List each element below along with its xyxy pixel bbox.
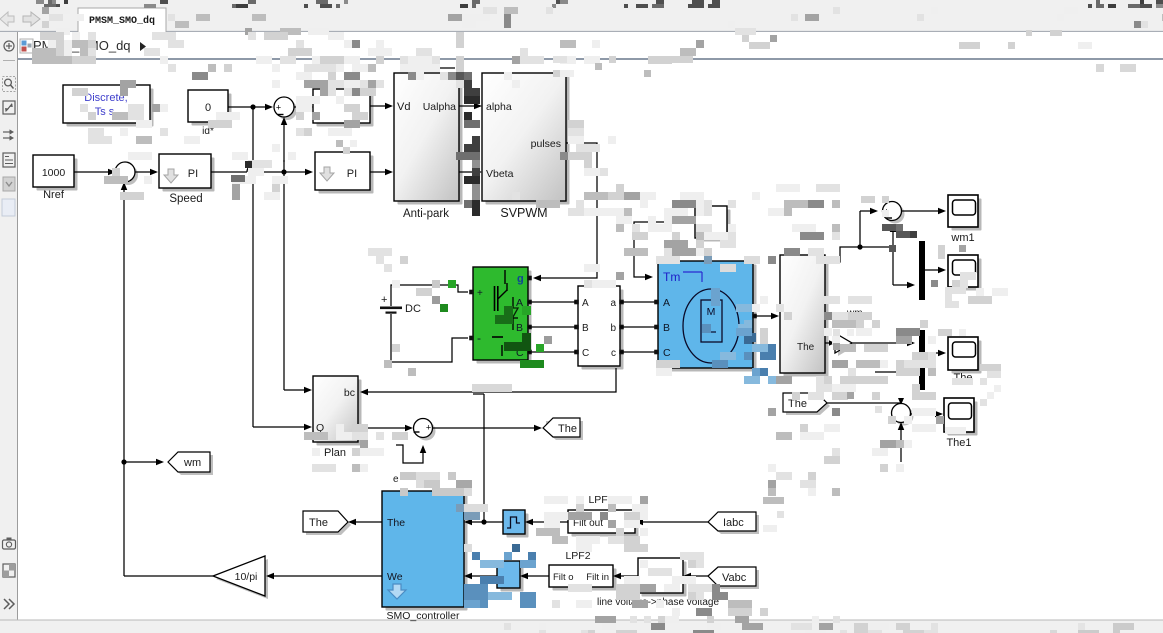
svg-text:b: b — [610, 323, 616, 334]
svg-text:PI: PI — [347, 168, 357, 180]
wire PI q to Anti-park input 2 — [370, 171, 391, 173]
wire gain to mux 2 — [852, 342, 913, 344]
From tag The (right) — [786, 396, 830, 415]
wire theta sum to Goto tag The — [433, 427, 540, 429]
scope 3 — [952, 341, 982, 374]
wire step to motor Tm — [634, 222, 695, 277]
svg-text:a: a — [610, 298, 616, 309]
svg-text:0: 0 — [205, 102, 211, 114]
wire motor m output to measurement demux — [753, 315, 777, 317]
wire VI bc tap to Plan block — [362, 368, 616, 392]
wire LPF2 to small filter — [522, 575, 549, 577]
toolbar icon zoom — [3, 77, 16, 92]
PI current controller q-axis block — [319, 156, 374, 194]
wire gain output feedback — [124, 575, 213, 577]
wire angle sum bottom input — [900, 424, 902, 462]
svg-text:The: The — [558, 423, 577, 435]
wire Nref to speed sum — [74, 171, 114, 173]
wire LPF1 to rate transition — [527, 521, 568, 523]
wire sum bottom input elbow — [396, 445, 423, 463]
From tag Iabc — [711, 515, 759, 534]
PI current controller d-axis block — [317, 93, 374, 127]
wire Iabc tag to LPF1 — [637, 521, 708, 523]
svg-text:Tm: Tm — [663, 270, 680, 284]
svg-text:Plan: Plan — [324, 447, 346, 459]
gain block 10/pi — [216, 559, 268, 599]
universal bridge inverter block (green) — [477, 271, 532, 364]
svg-text:Filt o: Filt o — [553, 572, 574, 583]
svg-text:C: C — [663, 347, 671, 359]
wire Vabc tag to voltage transform — [685, 575, 708, 577]
mux block 2 — [919, 330, 925, 390]
wire sum to scope wm1 — [901, 210, 944, 212]
status bar — [0, 620, 1163, 633]
toolbar icon camera — [3, 540, 16, 549]
svg-text:We: We — [387, 571, 403, 583]
scope The1 — [948, 402, 978, 436]
scope wm1 — [952, 199, 982, 231]
model icon in breadcrumb — [20, 39, 33, 53]
svg-text:B: B — [663, 322, 670, 334]
toolbar icon fit view — [3, 101, 15, 114]
toolbar icon highlighted box — [2, 199, 15, 216]
svg-text:The1: The1 — [946, 437, 971, 449]
wire SMO The output to Goto tag — [350, 521, 382, 523]
Plan flux position block — [317, 380, 362, 446]
svg-text:SVPWM: SVPWM — [500, 206, 547, 220]
svg-text:c: c — [611, 348, 616, 359]
wire constant 0 to sum — [228, 106, 271, 108]
wire voltage transform to LPF2 — [615, 575, 638, 577]
three-phase VI measurement block — [582, 290, 624, 370]
Speed PI controller block — [163, 158, 215, 192]
constant block id* value 0 — [192, 94, 232, 126]
tab bar — [0, 7, 1163, 32]
svg-text:A: A — [516, 297, 523, 309]
wire stub above Anti-park — [433, 67, 455, 69]
wire sum to current PI d — [294, 106, 311, 108]
svg-text:Vabc: Vabc — [722, 572, 747, 584]
wire mux 2 lower input — [875, 371, 913, 373]
svg-text:C: C — [582, 348, 589, 359]
sum block id loop — [277, 100, 297, 120]
wire SMO theta up to compare — [483, 394, 485, 522]
toolbar icon expand chevrons — [4, 599, 9, 609]
svg-text:pulses: pulses — [531, 138, 561, 150]
svg-text:Vd: Vd — [397, 101, 410, 113]
svg-text:e: e — [393, 474, 399, 485]
svg-text:The: The — [387, 517, 405, 529]
svg-text:10/pi: 10/pi — [235, 571, 258, 583]
wire small filter to SMO We side input — [466, 575, 497, 577]
mux block 1 — [919, 241, 925, 300]
svg-text:+: + — [477, 288, 483, 299]
svg-text:The: The — [797, 342, 815, 353]
Goto tag wm — [171, 455, 213, 475]
LPF2 block — [553, 569, 617, 591]
wire id* branch down to Plan Q input — [250, 104, 255, 109]
svg-text:g: g — [517, 273, 524, 285]
toolbar icon property list — [3, 153, 15, 167]
svg-text:DC: DC — [405, 303, 421, 315]
svg-text:SMO_controller: SMO_controller — [387, 610, 460, 622]
constant block Nref 1000 — [37, 159, 78, 191]
svg-text:B: B — [582, 323, 589, 334]
SVPWM block — [486, 77, 570, 205]
svg-text:The: The — [309, 517, 328, 529]
svg-text:+: + — [381, 294, 387, 306]
rate transition block — [507, 514, 529, 538]
wire branch down to Plan block input — [283, 172, 285, 390]
svg-text:B: B — [516, 322, 523, 334]
wire DC minus to inverter — [391, 314, 468, 362]
wire Plan to compare sum — [358, 427, 411, 429]
step block load torque — [699, 210, 731, 242]
toolbar icon viewport — [3, 564, 15, 577]
powergui block Discrete — [67, 89, 154, 127]
svg-text:Speed: Speed — [169, 193, 202, 205]
voltage transform block — [642, 562, 687, 597]
Anti-park transform block — [398, 77, 463, 205]
wire angle sum to scope The1 — [910, 413, 941, 415]
gain block triangle — [838, 336, 855, 356]
Goto tag The (center) — [546, 421, 583, 440]
svg-text:A: A — [582, 298, 589, 309]
wire PI d to Anti-park Vd — [370, 105, 391, 107]
toolbar icon signal arrows — [3, 131, 11, 133]
svg-text:Iabc: Iabc — [723, 517, 744, 529]
svg-text:wm1: wm1 — [950, 232, 974, 244]
wire Anti-park out2 to SVPWM Vbeta — [459, 171, 480, 173]
sum block speed error wm — [886, 205, 905, 224]
wire speed sum to Speed PI — [135, 171, 156, 173]
svg-text:+: + — [426, 423, 431, 433]
svg-text:Anti-park: Anti-park — [403, 208, 449, 220]
svg-text:Ualpha: Ualpha — [423, 101, 456, 113]
toolbar icon hide/show — [4, 41, 14, 51]
sum block angle compare — [895, 407, 914, 426]
sum block speed loop — [118, 165, 138, 185]
From tag Vabc — [711, 570, 759, 589]
PMSM motor block (blue) — [662, 265, 757, 372]
menu bar — [0, 0, 1163, 7]
wire Tm label line — [683, 271, 702, 273]
measurement demux block — [784, 259, 829, 377]
Goto tag The (bottom left) — [306, 514, 351, 535]
svg-text:wm: wm — [183, 457, 201, 469]
svg-text:PI: PI — [188, 168, 198, 180]
active model tab PMSM_SMO_dq — [78, 8, 166, 32]
svg-text:M: M — [707, 306, 716, 318]
wires VI measurement to motor A B C — [620, 301, 656, 303]
svg-text:alpha: alpha — [486, 101, 512, 113]
svg-text:bc: bc — [344, 387, 355, 399]
motor icon — [683, 289, 739, 363]
left toolbar — [0, 32, 17, 620]
nav back arrow — [0, 12, 14, 26]
wire rate transition to SMO — [466, 521, 503, 523]
svg-text:PMSM_SMO_dq: PMSM_SMO_dq — [89, 15, 155, 27]
nav forward arrow — [23, 12, 40, 26]
wire mux 2 to scope 3 — [925, 352, 944, 354]
sum block theta compare — [417, 422, 436, 441]
scope 2 — [952, 259, 982, 291]
IGBT and diode icon inside inverter — [504, 270, 506, 284]
wire branch to wm tag — [124, 461, 162, 463]
wire Speed PI to q-axis PI with crossing hop — [211, 171, 247, 173]
LPF1 block — [572, 514, 639, 537]
svg-text:-: - — [477, 331, 481, 345]
svg-text:Nref: Nref — [43, 189, 65, 201]
wires inverter to VI measurement A B C — [528, 301, 576, 303]
svg-text:1000: 1000 — [42, 167, 66, 179]
svg-text:+: + — [276, 103, 281, 113]
svg-text:Filt in: Filt in — [586, 572, 609, 583]
toolbar icon disabled dropdown — [3, 177, 15, 191]
wire From The to angle sum — [827, 402, 901, 404]
wire demux to wm sum and mux — [825, 247, 893, 262]
wire pulses to inverter gate — [535, 143, 597, 278]
wire Anti-park Ualpha to SVPWM — [459, 105, 480, 107]
svg-text:Vbeta: Vbeta — [486, 168, 514, 180]
wire branch up to id sum — [283, 119, 285, 162]
SMO_controller block (blue) — [386, 495, 468, 611]
svg-text:A: A — [663, 297, 670, 309]
breadcrumb bar — [0, 32, 1163, 60]
filter block small (blue) — [501, 565, 524, 592]
wire DC plus to inverter — [391, 285, 468, 306]
wire mux to scope 2 — [925, 269, 944, 271]
wire SMO We output to gain 10/pi — [268, 575, 382, 577]
